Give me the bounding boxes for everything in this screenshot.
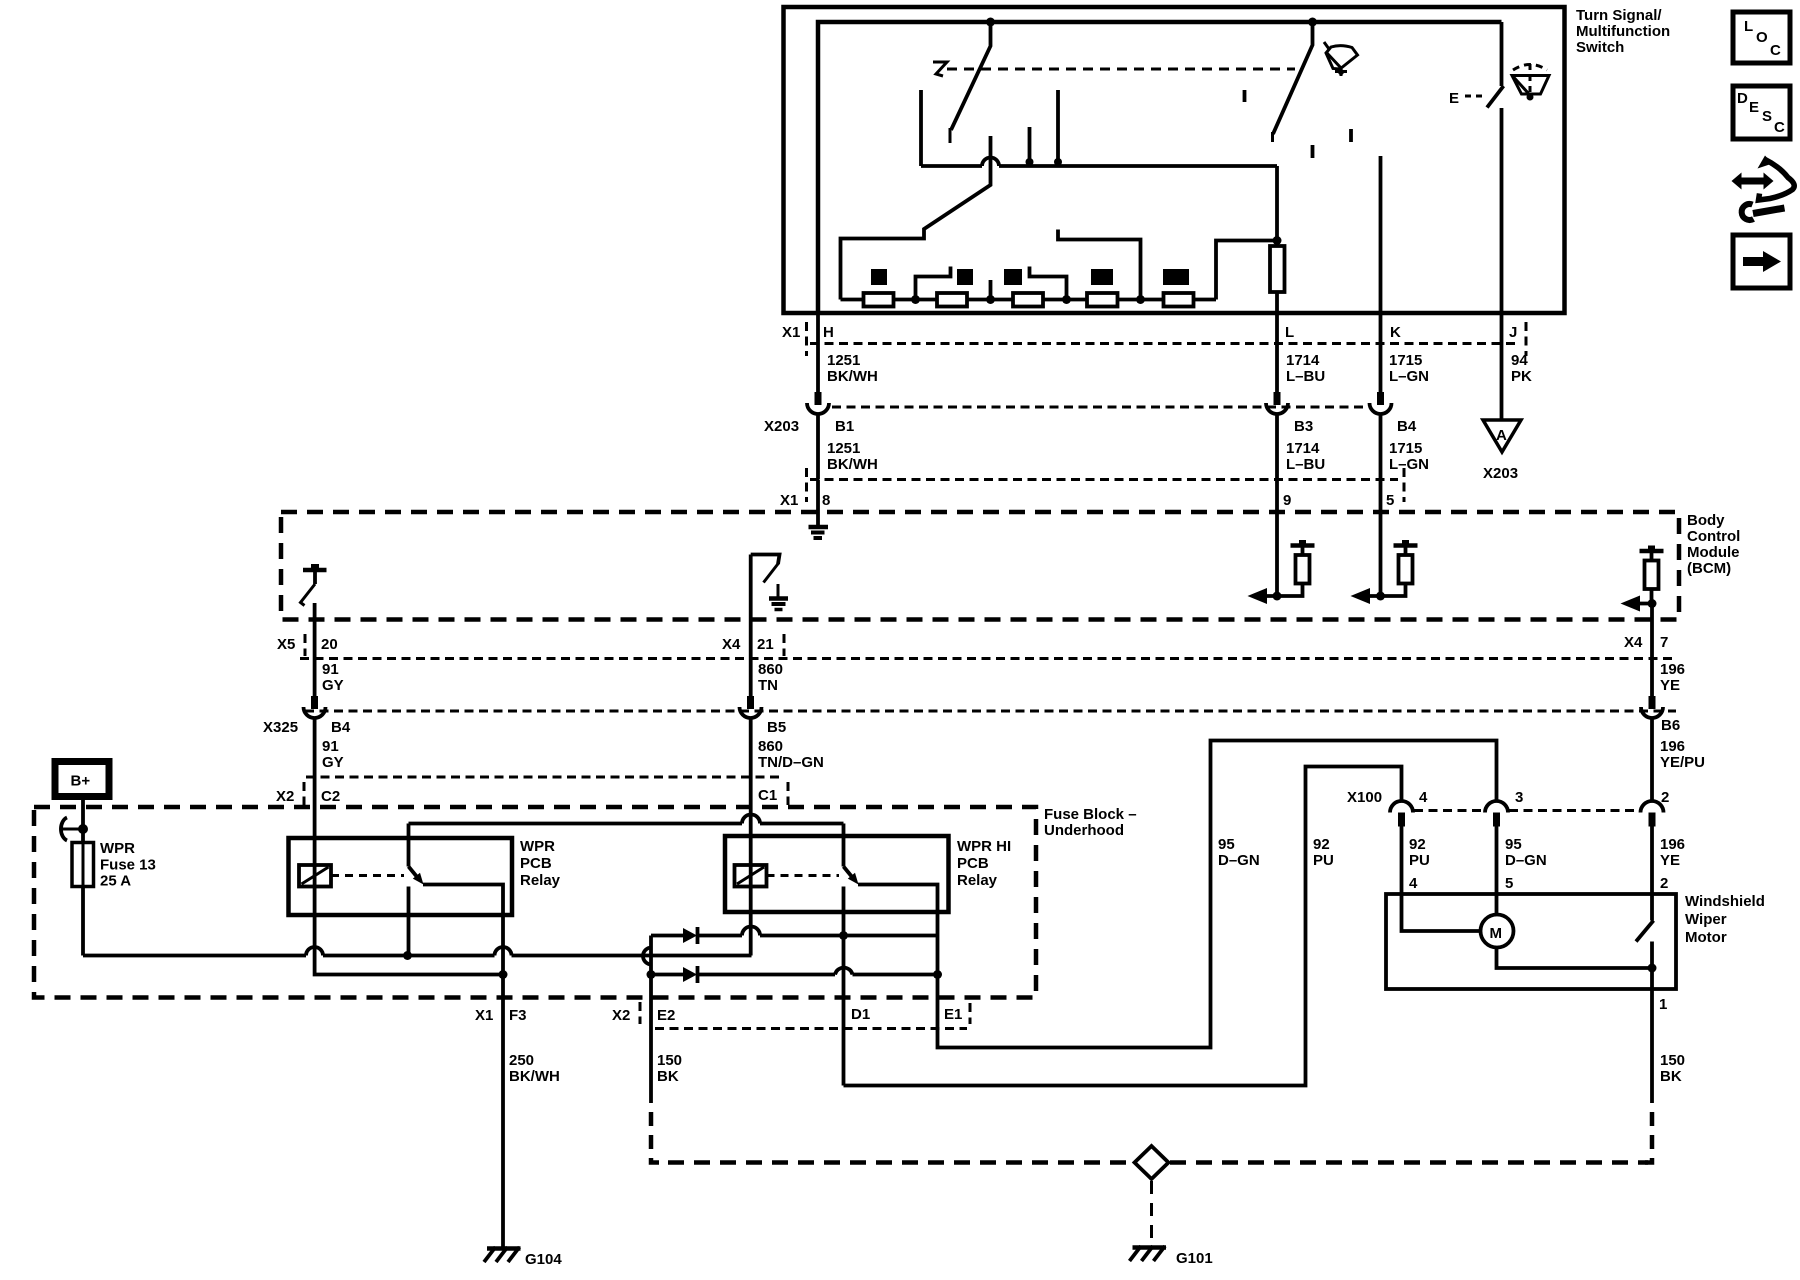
svg-text:PCB: PCB [520, 855, 552, 872]
svg-text:B1: B1 [835, 418, 854, 435]
svg-text:92: 92 [1409, 836, 1426, 853]
svg-text:860: 860 [758, 661, 783, 678]
wire 860 TN/D-GN lower [749, 718, 753, 866]
svg-text:WPR HI: WPR HI [957, 838, 1011, 855]
svg-text:21: 21 [757, 636, 774, 653]
wire pin J upper [1500, 22, 1504, 86]
svg-text:C2: C2 [321, 788, 340, 805]
svg-text:GY: GY [322, 754, 344, 771]
wire pin J lower [1500, 108, 1504, 313]
wire S1 contact stub a [1028, 127, 1032, 166]
diode D1 upper [683, 928, 697, 943]
wire ground path dashed horizontal to wiper motor [1170, 1160, 1648, 1165]
svg-text:S: S [1762, 108, 1772, 125]
node dot coil return at F3 [499, 970, 508, 979]
relay coil WPR [299, 865, 331, 887]
svg-text:91: 91 [322, 738, 339, 755]
svg-text:D: D [1737, 90, 1748, 107]
node ladder dot 2 [986, 295, 995, 304]
svg-text:WPR: WPR [100, 840, 135, 857]
svg-text:L–BU: L–BU [1286, 368, 1325, 385]
connector X203 B3 [1274, 392, 1281, 405]
svg-text:196: 196 [1660, 661, 1685, 678]
svg-text:1715: 1715 [1389, 352, 1422, 369]
wire B+ to fuse [81, 795, 85, 843]
connector X2 E2 row dashed line [655, 1027, 967, 1030]
svg-text:Turn Signal/: Turn Signal/ [1576, 7, 1662, 24]
wire dashed mechanical link S1 to S2 [947, 68, 1295, 71]
node ladder dot 3 [1062, 295, 1071, 304]
wire coil 2 to bus corner [749, 887, 753, 956]
wire 95 D-GN to motor pin 5 [1495, 827, 1499, 895]
relay 1 contact common [407, 824, 411, 867]
svg-text:Body: Body [1687, 512, 1725, 529]
svg-text:L–GN: L–GN [1389, 368, 1429, 385]
splice tap at B+ feed [61, 818, 67, 841]
node S2 travel tick c [1349, 129, 1353, 142]
wire motor pin 5 internal [1495, 894, 1499, 915]
svg-text:250: 250 [509, 1052, 534, 1069]
diode D2 lower [683, 967, 697, 982]
svg-text:TN: TN [758, 677, 778, 694]
wire 860 into coil 2 [749, 865, 753, 887]
svg-text:Motor: Motor [1685, 929, 1727, 946]
driver BCM pull-up on wire 196 [1640, 549, 1664, 554]
svg-text:G101: G101 [1176, 1250, 1213, 1267]
wiper contact square 2 [957, 269, 973, 285]
svg-text:2: 2 [1660, 875, 1668, 892]
svg-text:F3: F3 [509, 1007, 527, 1024]
svg-text:25 A: 25 A [100, 873, 131, 890]
svg-text:7: 7 [1660, 634, 1668, 651]
connector X325 row dashed line [305, 710, 1676, 713]
wire ladder return to resistor [1216, 241, 1277, 300]
fuse block underhood dashed box [34, 807, 1036, 998]
relay 2 center terminal wire 92 PU [842, 887, 846, 1086]
wire K from switch [1379, 313, 1383, 392]
wire link relay1 to relay2 with hop at C1 [409, 815, 844, 824]
wire 196 YE inside BCM [1650, 604, 1654, 659]
wire 250 BK/WH to G104 [501, 1050, 505, 1249]
wire H middle [816, 413, 820, 479]
node dot stub a [1026, 158, 1034, 166]
svg-text:5: 5 [1505, 875, 1513, 892]
wire L into BCM driver [1275, 480, 1279, 597]
connector X2 row dashed line [306, 776, 784, 779]
svg-text:X5: X5 [277, 636, 295, 653]
splice diamond S-connector [1135, 1146, 1169, 1179]
svg-text:1714: 1714 [1286, 440, 1320, 457]
node junction dot switch 1 [986, 18, 995, 27]
svg-text:B3: B3 [1294, 418, 1313, 435]
svg-text:BK: BK [1660, 1068, 1682, 1085]
ground internal BCM at X1-8 [809, 525, 829, 530]
svg-text:Multifunction: Multifunction [1576, 23, 1670, 40]
connector X203 B4 [1377, 392, 1384, 405]
park switch lower wire pin 1 [1650, 942, 1654, 990]
wiper contact square 4 [1091, 269, 1113, 285]
svg-text:X325: X325 [263, 719, 298, 736]
svg-text:B+: B+ [71, 773, 91, 790]
svg-text:O: O [1756, 29, 1768, 46]
svg-text:(BCM): (BCM) [1687, 560, 1731, 577]
relay WPR HI PCB Relay box [725, 836, 949, 912]
svg-text:X4: X4 [1624, 634, 1643, 651]
svg-text:1715: 1715 [1389, 440, 1422, 457]
svg-text:X2: X2 [276, 788, 294, 805]
wire 150 BK left solid [649, 1000, 653, 1103]
icon washer spray [1512, 64, 1549, 101]
svg-text:91: 91 [322, 661, 339, 678]
svg-text:B4: B4 [1397, 418, 1417, 435]
svg-text:92: 92 [1313, 836, 1330, 853]
wire ground path dashed right rise [1650, 1112, 1655, 1126]
wire lower diode branch with hop [651, 968, 938, 975]
svg-text:L–BU: L–BU [1286, 456, 1325, 473]
wire 91 GY lower [313, 718, 317, 866]
svg-text:WPR: WPR [520, 838, 555, 855]
wire coil link dashed 2 [767, 874, 840, 877]
wire B+ bus with hops [83, 947, 752, 956]
svg-text:PK: PK [1511, 368, 1532, 385]
svg-text:C: C [1774, 119, 1785, 136]
wire 92 PU from D1 to X100-4 [844, 767, 1402, 1086]
wire S1 left contact [919, 90, 923, 166]
svg-text:BK/WH: BK/WH [827, 368, 878, 385]
svg-text:2: 2 [1661, 789, 1669, 806]
wire L from switch [1275, 313, 1279, 392]
node ladder dot 1 [911, 295, 920, 304]
wire 150 BK right [1650, 989, 1654, 1103]
svg-text:9: 9 [1283, 492, 1291, 509]
svg-text:1: 1 [1659, 996, 1667, 1013]
svg-text:4: 4 [1409, 875, 1418, 892]
svg-text:1714: 1714 [1286, 352, 1320, 369]
node dot upper branch at 92 PU [839, 931, 848, 940]
node ladder dot 4 [1136, 295, 1145, 304]
connector X100 pin 3 [1485, 801, 1508, 813]
svg-text:YE: YE [1660, 677, 1680, 694]
ground G104 [487, 1246, 521, 1251]
resistor ladder R3 [1013, 293, 1043, 307]
connector X100 row dashed line [1414, 809, 1484, 812]
svg-text:5: 5 [1386, 492, 1394, 509]
wire S1 contact stub b [1056, 90, 1060, 166]
node dot stub b [1054, 158, 1062, 166]
svg-text:1251: 1251 [827, 440, 860, 457]
icon box forward arrow [1733, 235, 1790, 288]
park switch blade [1636, 921, 1654, 942]
wire 860 TN inside BCM [749, 555, 753, 659]
svg-text:X4: X4 [722, 636, 741, 653]
wire coil link dashed [331, 874, 404, 877]
svg-text:X2: X2 [612, 1007, 630, 1024]
wire ladder tap 3 [1030, 267, 1067, 300]
svg-text:150: 150 [1660, 1052, 1685, 1069]
node dot lower branch [647, 970, 656, 979]
connector X5 X4 row dashed line [300, 657, 1676, 660]
svg-text:1251: 1251 [827, 352, 860, 369]
node dot lower branch at E1 [933, 970, 942, 979]
svg-text:YE/PU: YE/PU [1660, 754, 1705, 771]
svg-text:C: C [1770, 42, 1781, 59]
svg-text:860: 860 [758, 738, 783, 755]
icon box DESC [1733, 86, 1790, 139]
battery feed B+ [55, 762, 109, 797]
svg-text:Control: Control [1687, 528, 1740, 545]
resistor ladder R2 [937, 293, 967, 307]
svg-text:A: A [1496, 427, 1507, 444]
svg-text:X1: X1 [782, 324, 800, 341]
svg-text:K: K [1390, 324, 1401, 341]
node S2 travel tick b [1311, 145, 1315, 158]
svg-text:H: H [823, 324, 834, 341]
wiper contact square 1 [871, 269, 887, 285]
connector X1 row dashed line [810, 342, 1520, 345]
driver BCM pull-up on wire 1714 [1291, 543, 1315, 548]
svg-text:BK/WH: BK/WH [509, 1068, 560, 1085]
wire 92 PU to motor pin 4 [1400, 827, 1404, 895]
resistor ladder R5 [1164, 293, 1194, 307]
node dot park switch [1648, 964, 1657, 973]
svg-text:L: L [1744, 18, 1753, 35]
svg-text:150: 150 [657, 1052, 682, 1069]
svg-text:D–GN: D–GN [1505, 852, 1547, 869]
svg-text:Module: Module [1687, 544, 1740, 561]
turn signal / multifunction switch box [784, 7, 1565, 313]
connector X325 B6 [1649, 696, 1656, 709]
resistor ladder R1 [864, 293, 894, 307]
wire ladder tap 2 stub [989, 280, 993, 300]
svg-text:BK: BK [657, 1068, 679, 1085]
wire upper diode branch with hop [651, 927, 938, 936]
node junction dot switch 2 [1308, 18, 1317, 27]
svg-text:L: L [1285, 324, 1294, 341]
wire 91 GY into coil [313, 865, 317, 887]
ground G101 [1133, 1245, 1167, 1250]
wire inner top rail [818, 22, 1502, 313]
windshield wiper motor box [1386, 894, 1676, 989]
wire pin K stub inside box [1379, 156, 1383, 313]
svg-text:196: 196 [1660, 738, 1685, 755]
wire S1 pole to resistor ladder [841, 136, 991, 300]
svg-text:PCB: PCB [957, 855, 989, 872]
svg-text:Switch: Switch [1576, 39, 1624, 56]
motor M [1481, 915, 1514, 948]
wire 95 D-GN from E1 to X100-3 [938, 741, 1497, 1048]
svg-text:X1: X1 [780, 492, 798, 509]
svg-text:B5: B5 [767, 719, 786, 736]
resistor pulse delay [1270, 246, 1285, 292]
svg-text:D–GN: D–GN [1218, 852, 1260, 869]
svg-text:8: 8 [822, 492, 830, 509]
wire J from switch [1500, 313, 1504, 420]
svg-text:95: 95 [1505, 836, 1522, 853]
svg-text:Relay: Relay [957, 872, 998, 889]
svg-text:94: 94 [1511, 352, 1528, 369]
node dot bus to relay 1 common [403, 951, 412, 960]
svg-text:D1: D1 [851, 1006, 870, 1023]
wire K into BCM driver [1379, 480, 1383, 597]
svg-text:B6: B6 [1661, 717, 1680, 734]
svg-text:4: 4 [1419, 789, 1428, 806]
wire F3 down through fuse box [501, 915, 505, 1050]
wire resistor to pin L [1275, 292, 1279, 313]
switch S1 delay blade [951, 22, 991, 130]
svg-text:YE: YE [1660, 852, 1680, 869]
svg-text:GY: GY [322, 677, 344, 694]
wire fuse down to bus [81, 886, 85, 956]
svg-text:Relay: Relay [520, 872, 561, 889]
wire 196 YE upper [1650, 658, 1654, 696]
wire pole rail down [1275, 166, 1279, 246]
wire 196 YE/PU lower [1650, 718, 1654, 801]
wire motor below M to park switch [1497, 948, 1653, 969]
wiper contact square 3 [1004, 269, 1022, 285]
svg-text:BK/WH: BK/WH [827, 456, 878, 473]
wire 91 GY upper [313, 620, 317, 697]
switch BCM internal X4-21 to ground [751, 555, 780, 565]
connector X325 B4 [311, 696, 318, 709]
connector X325 B5 [747, 696, 754, 709]
wire ladder tap 1 [916, 267, 951, 300]
connector X100 pin 4 [1390, 801, 1413, 813]
wire 860 TN upper [749, 658, 753, 696]
svg-text:Fuse 13: Fuse 13 [100, 857, 156, 874]
svg-text:E: E [1449, 90, 1459, 107]
relay 1 NO output [423, 885, 503, 916]
driver BCM pull-up on wire 1715 [1394, 543, 1418, 548]
wire L middle [1275, 413, 1279, 479]
splice arc at diode branch riser [643, 948, 652, 965]
wire ground path dashed left drop [649, 1112, 654, 1126]
svg-text:TN/D–GN: TN/D–GN [758, 754, 824, 771]
svg-text:M: M [1490, 925, 1503, 942]
icon wiper arm [1324, 42, 1358, 76]
switch S2 wiper blade [1273, 22, 1313, 134]
svg-text:196: 196 [1660, 836, 1685, 853]
svg-text:E: E [1749, 99, 1759, 116]
diode branch riser [649, 936, 653, 1001]
switch BCM internal X5-20 output [303, 568, 327, 573]
connector X203 row dashed line [832, 406, 1368, 409]
svg-text:X203: X203 [764, 418, 799, 435]
svg-text:Windshield: Windshield [1685, 893, 1765, 910]
relay 2 contact common [842, 824, 846, 867]
relay coil WPR HI [735, 865, 767, 887]
svg-text:PU: PU [1313, 852, 1334, 869]
svg-text:X100: X100 [1347, 789, 1382, 806]
wire H to ground [816, 480, 820, 526]
svg-text:Fuse Block –: Fuse Block – [1044, 806, 1137, 823]
relay 2 NO output [858, 885, 938, 975]
svg-text:G104: G104 [525, 1251, 562, 1268]
body control module BCM dashed box [281, 512, 1679, 620]
svg-text:95: 95 [1218, 836, 1235, 853]
connector X100 pin 2 [1641, 801, 1664, 813]
svg-text:E1: E1 [944, 1006, 962, 1023]
terminator triangle A X203 [1483, 420, 1521, 452]
relay 1 center terminal [407, 887, 411, 956]
svg-text:Wiper: Wiper [1685, 911, 1727, 928]
wire K middle [1379, 413, 1383, 479]
relay 1 blade [409, 867, 418, 878]
wire dashed stub diamond to G101 [1150, 1181, 1153, 1244]
wire H from switch [816, 313, 820, 392]
svg-text:20: 20 [321, 636, 338, 653]
park switch contact upper [1650, 894, 1654, 921]
svg-text:C1: C1 [758, 787, 777, 804]
svg-text:E2: E2 [657, 1007, 675, 1024]
svg-text:X203: X203 [1483, 465, 1518, 482]
svg-text:Underhood: Underhood [1044, 822, 1124, 839]
wire delay resistor ladder rail [841, 298, 1217, 302]
wire coil 1 return to F3 wire [315, 887, 503, 975]
connector X203 B1 [815, 392, 822, 405]
fuse WPR Fuse 13 25 A [72, 843, 94, 887]
node Z mark dashed link start [933, 62, 947, 76]
wiper contact square 5 [1163, 269, 1189, 285]
node dot ladder return [1273, 236, 1282, 245]
wire ground path dashed horizontal to diamond [668, 1160, 1133, 1165]
wire S1 pole rail with hop [921, 158, 1277, 167]
wire 196 YE to motor pin 2 [1650, 827, 1654, 895]
connector X1 row 2 dashed line [810, 478, 1398, 481]
wire motor pin 4 internal [1402, 894, 1481, 931]
svg-text:PU: PU [1409, 852, 1430, 869]
svg-text:X1: X1 [475, 1007, 493, 1024]
resistor ladder R4 [1087, 293, 1118, 307]
svg-text:L–GN: L–GN [1389, 456, 1429, 473]
icon diagnostic arrows and wrench [1732, 156, 1795, 220]
icon box LOC [1733, 12, 1790, 63]
svg-text:B4: B4 [331, 719, 351, 736]
svg-text:J: J [1509, 324, 1517, 341]
wire ladder tap 4 [1058, 230, 1141, 300]
svg-text:3: 3 [1515, 789, 1523, 806]
relay 2 blade [844, 867, 853, 878]
node S2 travel tick a [1243, 90, 1247, 102]
relay WPR PCB Relay box [289, 838, 513, 915]
